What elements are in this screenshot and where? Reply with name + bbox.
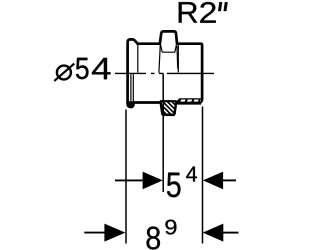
dim text 5 — [167, 173, 181, 198]
label R2 inch : glyph R — [179, 2, 198, 23]
press bead outline — [128, 39, 139, 107]
dim 5-4 left tail — [115, 179, 143, 181]
thread top edge and right face — [177, 44, 203, 103]
label dia 54 : glyph 4 — [92, 58, 111, 79]
dim 5-4 left arrow — [143, 172, 163, 190]
extension line middle (x=163.2) — [162, 74, 164, 192]
dim 8-9 right tail — [223, 232, 239, 234]
dim text 8 — [147, 227, 161, 250]
label dia 54 : glyph 5 — [76, 58, 89, 79]
bead hook solid fill — [126, 101, 135, 108]
thread section band (solid) — [177, 98, 202, 104]
nut section bottom edge emphasis — [163, 114, 175, 117]
nut left facet line — [159, 45, 160, 73]
socket top edge — [137, 42, 160, 45]
nut right silhouette line — [176, 46, 179, 69]
dim 5-4 right tail — [223, 179, 236, 181]
thread shoulder line — [177, 44, 179, 73]
nut section top line — [160, 100, 176, 102]
label dia 54 : glyph o-slash — [57, 66, 71, 80]
dim text 5 superscript 4 — [186, 167, 197, 182]
centerline — [115, 72, 214, 74]
bead inner edge (top half) — [137, 45, 139, 73]
label R2 inch : glyph 2 — [200, 2, 215, 23]
socket bottom edge — [133, 101, 161, 104]
hex nut (top half) — [160, 31, 178, 45]
dim 8-9 left tail — [84, 232, 104, 234]
bead section walls (bottom half) — [131, 74, 133, 101]
extension line left (x=126) — [125, 110, 127, 244]
dim 8-9 right arrow — [203, 224, 224, 242]
nut facet chamfer lines — [161, 45, 177, 52]
nut section outline — [160, 101, 176, 115]
extension line right (x=202.5) — [202, 107, 204, 244]
dim 5-4 right arrow — [203, 172, 223, 190]
dim text 8 superscript 9 — [165, 220, 176, 235]
thread band white slashes — [180, 100, 201, 102]
label R2 inch : glyph double-prime — [218, 2, 227, 11]
dim 8-9 left arrow — [104, 224, 125, 242]
